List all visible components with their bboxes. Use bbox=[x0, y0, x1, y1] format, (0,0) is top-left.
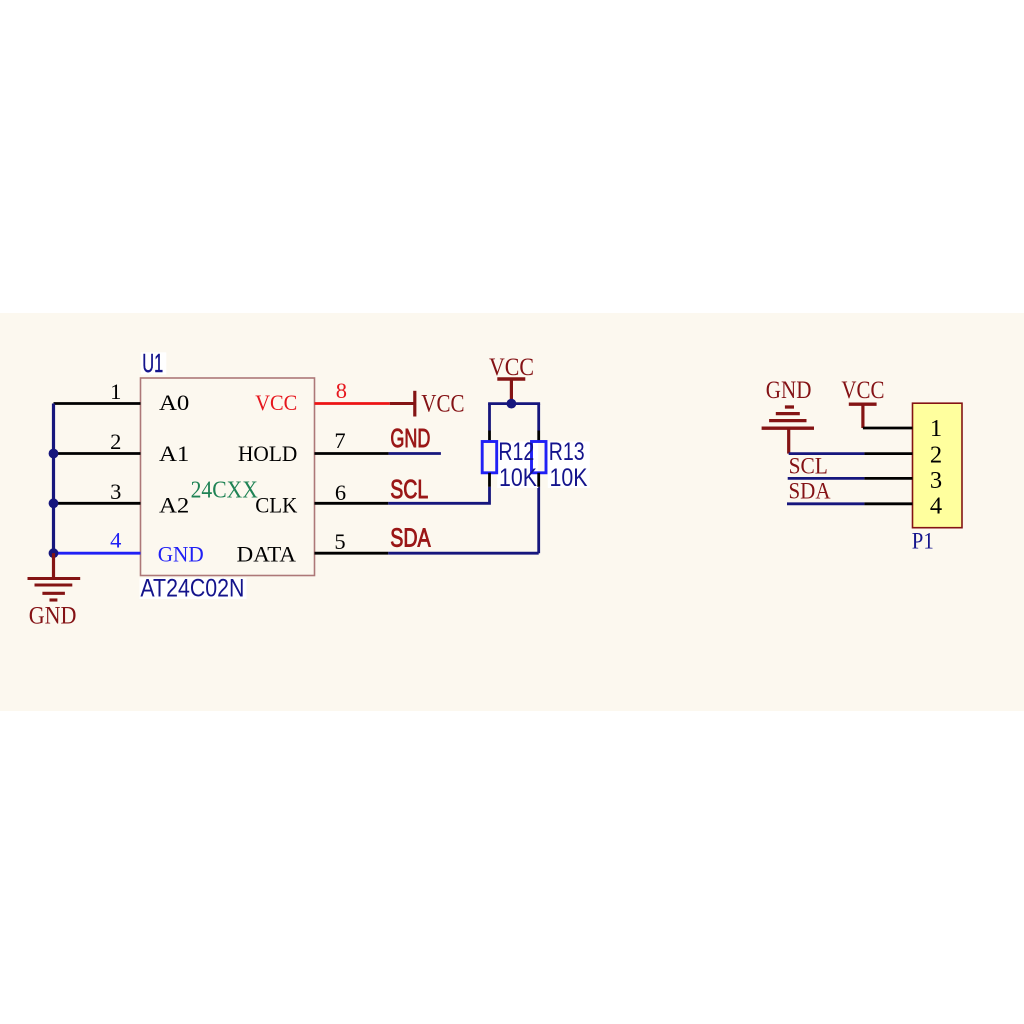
svg-text:24CXX: 24CXX bbox=[191, 477, 258, 504]
svg-text:8: 8 bbox=[336, 378, 347, 403]
resistor R12 lead bottom bbox=[488, 473, 491, 487]
svg-text:SDA: SDA bbox=[789, 479, 831, 505]
svg-text:1: 1 bbox=[110, 379, 121, 404]
ground symbol right stem bbox=[787, 428, 790, 453]
P1 pin 4 stub bbox=[864, 502, 912, 505]
junction dot VCC rail bbox=[507, 399, 517, 409]
pin 3 stub bbox=[58, 502, 141, 505]
resistor R12 body bbox=[482, 442, 497, 473]
wire SCL net bbox=[388, 487, 489, 504]
ground symbol left bar3 bbox=[42, 592, 65, 595]
wire R12 top bbox=[488, 404, 491, 431]
junction dot pin2 bbox=[49, 449, 59, 459]
P1 pin 3 wire navy bbox=[788, 477, 865, 480]
power port VCC right: stem bbox=[861, 404, 864, 428]
svg-text:U1: U1 bbox=[142, 348, 163, 378]
svg-text:A1: A1 bbox=[159, 441, 189, 466]
P1 pin 3 stub bbox=[864, 477, 912, 480]
pin 4 stub (GND net, blue) bbox=[56, 552, 141, 555]
designator U1 bbox=[141, 348, 167, 378]
P1 pin 2 wire navy bbox=[789, 452, 865, 455]
svg-text:R12: R12 bbox=[498, 438, 534, 466]
wire GND net at pin7 bbox=[389, 452, 441, 455]
resistor R13 lead bottom bbox=[537, 473, 540, 487]
svg-text:10K: 10K bbox=[550, 464, 588, 492]
svg-text:A0: A0 bbox=[159, 390, 189, 415]
svg-text:GND: GND bbox=[29, 603, 77, 630]
svg-text:VCC: VCC bbox=[421, 391, 464, 418]
svg-text:5: 5 bbox=[334, 529, 345, 554]
part type AT24C02N bbox=[140, 574, 247, 602]
IC U1 body bbox=[141, 378, 315, 576]
svg-text:SCL: SCL bbox=[390, 474, 428, 504]
junction dot pin3 bbox=[49, 498, 59, 508]
P1 pin 4 wire navy bbox=[787, 502, 864, 505]
svg-text:SCL: SCL bbox=[789, 454, 828, 480]
ground symbol left bar4 dash bbox=[50, 598, 58, 601]
power port VCC top: bar bbox=[497, 377, 525, 380]
pin 2 stub bbox=[58, 452, 141, 455]
svg-text:P1: P1 bbox=[912, 529, 934, 555]
svg-text:GND: GND bbox=[158, 541, 204, 566]
pin 5 stub bbox=[315, 552, 389, 555]
svg-text:SDA: SDA bbox=[390, 523, 431, 553]
svg-text:AT24C02N: AT24C02N bbox=[140, 574, 244, 602]
power port VCC at pin8: bar bbox=[413, 391, 416, 417]
svg-text:A2: A2 bbox=[159, 492, 189, 517]
ground symbol right bar3 bbox=[769, 419, 806, 422]
svg-text:1: 1 bbox=[930, 415, 942, 442]
svg-text:VCC: VCC bbox=[841, 377, 884, 404]
ground symbol right dash bbox=[785, 405, 794, 408]
text box R12 bbox=[497, 442, 538, 489]
pin 7 stub bbox=[315, 452, 389, 455]
ground symbol left bar1 bbox=[28, 577, 81, 580]
pin 1 stub bbox=[54, 402, 141, 405]
svg-text:GND: GND bbox=[766, 377, 812, 404]
wire VCC rail top bbox=[488, 402, 540, 405]
power port VCC right: bar bbox=[849, 403, 877, 406]
ground symbol left stem bbox=[52, 553, 55, 577]
svg-text:3: 3 bbox=[930, 467, 942, 494]
svg-text:DATA: DATA bbox=[237, 541, 296, 566]
resistor R13 body bbox=[532, 442, 547, 473]
left bus wire vertical bbox=[52, 404, 55, 554]
text box R13 bbox=[548, 442, 590, 489]
ground symbol right bar2 bbox=[776, 412, 800, 415]
svg-text:4: 4 bbox=[930, 492, 942, 519]
svg-text:4: 4 bbox=[110, 528, 121, 553]
resistor R13 lead top bbox=[537, 431, 540, 442]
svg-text:VCC: VCC bbox=[255, 390, 297, 415]
svg-text:GND: GND bbox=[390, 423, 430, 453]
svg-text:6: 6 bbox=[335, 480, 346, 505]
svg-text:CLK: CLK bbox=[255, 493, 297, 518]
svg-text:R13: R13 bbox=[549, 438, 585, 466]
svg-text:10K: 10K bbox=[499, 464, 537, 492]
svg-text:3: 3 bbox=[110, 479, 121, 504]
wire SDA net bbox=[388, 552, 538, 555]
P1 pin 1 wire bbox=[863, 427, 913, 430]
ground symbol left bar2 bbox=[35, 583, 73, 586]
P1 pin 2 stub bbox=[864, 452, 912, 455]
pin 8 stub (VCC net, red) bbox=[315, 402, 390, 405]
ground symbol right bar4 bbox=[762, 427, 814, 430]
svg-text:HOLD: HOLD bbox=[238, 441, 297, 466]
resistor R12 lead top bbox=[488, 431, 491, 442]
power port VCC at pin8: lead bbox=[390, 402, 415, 405]
wire R13 bottom to SDA bbox=[537, 487, 540, 553]
power port VCC top: stem bbox=[510, 379, 513, 400]
svg-text:2: 2 bbox=[110, 429, 121, 454]
junction dot pin4 bbox=[49, 548, 59, 558]
connector P1 body bbox=[913, 403, 963, 528]
wire R13 top bbox=[537, 404, 540, 431]
pin 6 stub bbox=[315, 502, 389, 505]
svg-text:VCC: VCC bbox=[489, 354, 534, 381]
svg-text:2: 2 bbox=[930, 441, 942, 468]
svg-text:7: 7 bbox=[334, 428, 345, 453]
